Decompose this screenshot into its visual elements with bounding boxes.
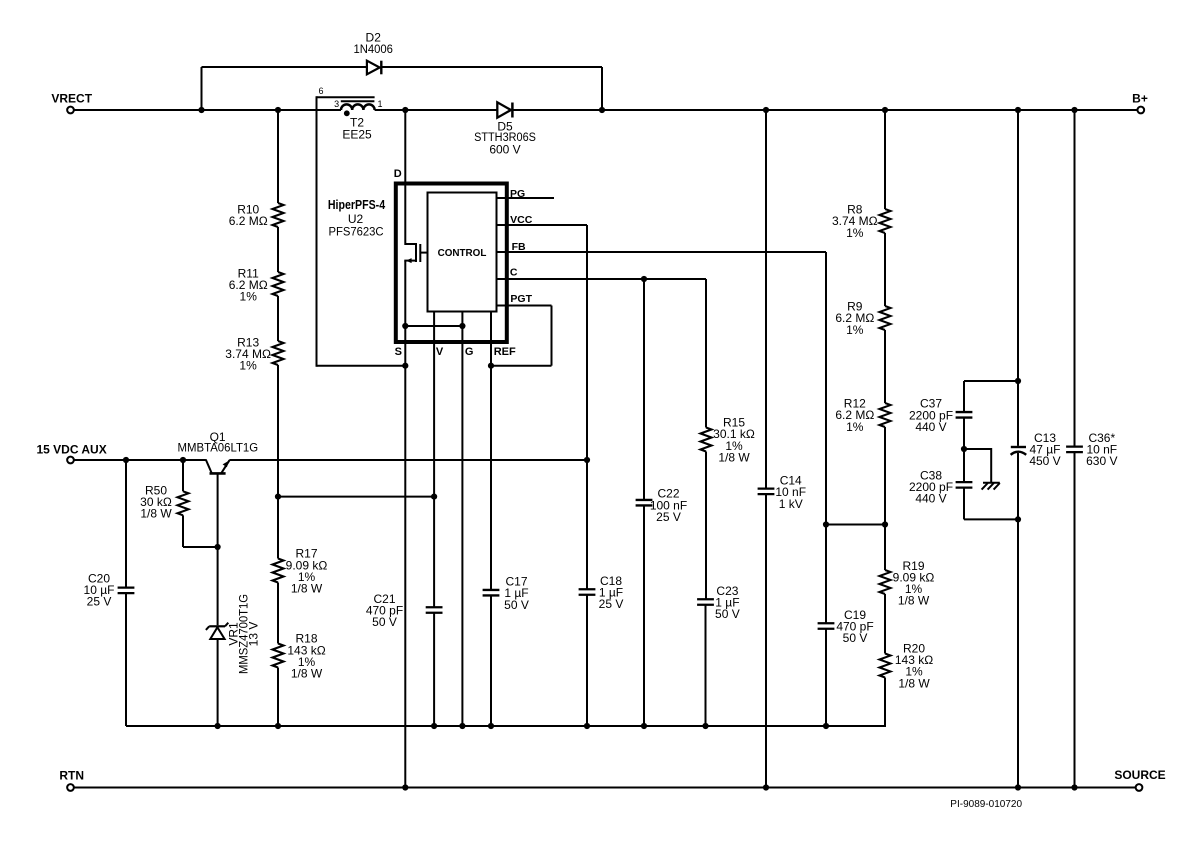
junction dot source link left xyxy=(402,323,408,329)
transistor Q1 label xyxy=(178,430,259,455)
resistor R19 xyxy=(880,559,935,608)
junction dot C36 top xyxy=(1071,107,1077,113)
wire pin6 to S link xyxy=(317,365,406,367)
junction dot C14 at RTN xyxy=(763,784,769,790)
wire MOSFET source down xyxy=(404,261,406,326)
wire C pin xyxy=(497,278,707,280)
junction dot C37 link xyxy=(1015,378,1021,384)
pin label G xyxy=(465,346,474,358)
svg-text:50 V: 50 V xyxy=(372,615,397,629)
capacitor C13 xyxy=(1011,431,1061,788)
pin label V xyxy=(436,346,444,358)
capacitor C22 xyxy=(636,279,688,726)
svg-text:C: C xyxy=(510,266,518,278)
wire S pin inside xyxy=(404,326,406,366)
wire R50 to base xyxy=(183,546,218,548)
wire D2 branch left vertical xyxy=(201,67,203,111)
svg-text:50 V: 50 V xyxy=(504,598,529,612)
wire D2 branch right vertical xyxy=(601,67,603,111)
svg-text:SOURCE: SOURCE xyxy=(1114,768,1165,782)
transistor Q2 MOSFET drain lead xyxy=(405,243,417,245)
wire S down to RTN xyxy=(404,366,406,788)
junction dot S at RTN xyxy=(402,784,408,790)
wire R11 to R13 xyxy=(277,296,279,341)
U2 control box xyxy=(428,193,497,312)
svg-text:VRECT: VRECT xyxy=(51,91,92,105)
svg-text:MMBTA06LT1G: MMBTA06LT1G xyxy=(178,441,259,454)
junction dot V line node xyxy=(431,494,437,500)
transformer T2 label xyxy=(342,116,372,142)
junction dot C13 at RTN xyxy=(1015,784,1021,790)
resistor R10 xyxy=(229,202,284,228)
svg-text:1%: 1% xyxy=(846,420,864,434)
pin label C xyxy=(510,266,518,278)
node VRECT terminal xyxy=(51,91,92,113)
svg-text:VCC: VCC xyxy=(510,214,533,226)
wire C38 bottom link xyxy=(964,518,1018,520)
junction dot C22 top xyxy=(641,276,647,282)
wire C37 top link xyxy=(964,380,1018,382)
pin label D xyxy=(394,168,402,180)
wire C14 upper xyxy=(765,110,767,489)
svg-text:PI-9089-010720: PI-9089-010720 xyxy=(950,799,1022,810)
pin label REF xyxy=(494,346,516,358)
svg-text:1/8 W: 1/8 W xyxy=(718,450,750,464)
wire PGT down xyxy=(551,306,553,366)
svg-text:1/8 W: 1/8 W xyxy=(898,676,930,690)
resistor R17 xyxy=(273,547,328,596)
junction dot C19 bottom xyxy=(823,723,829,729)
capacitor C20 xyxy=(84,460,135,726)
wire Q1 base down xyxy=(217,473,219,625)
wire R12 to node xyxy=(884,427,886,525)
transistor Q2 MOSFET gate lead xyxy=(420,252,428,254)
resistor R18 xyxy=(273,632,326,681)
diode D2 xyxy=(353,30,392,74)
svg-text:D: D xyxy=(394,168,402,180)
ground chassis symbol xyxy=(982,483,1000,490)
transistor Q1 collector lead xyxy=(206,459,212,473)
wire FB node to divider xyxy=(826,524,885,526)
svg-text:V: V xyxy=(436,346,444,358)
junction dot C20 top xyxy=(123,457,129,463)
wire VCC pin xyxy=(497,224,588,226)
resistor R12 xyxy=(835,397,890,434)
svg-text:1: 1 xyxy=(377,99,382,109)
junction dot R8 top xyxy=(882,107,888,113)
wire C14 lower xyxy=(765,494,767,787)
U2 name label xyxy=(328,198,386,238)
transistor Q1 emitter lead xyxy=(221,460,229,473)
svg-text:1/8 W: 1/8 W xyxy=(291,666,323,680)
node SOURCE terminal xyxy=(1114,768,1165,791)
capacitor C37 xyxy=(909,381,972,449)
wire R13 node to V line xyxy=(278,496,434,498)
svg-text:EE25: EE25 xyxy=(342,128,372,142)
junction dot C38 link xyxy=(1015,516,1021,522)
wire source to G link xyxy=(405,325,462,327)
junction dot C17 bottom xyxy=(488,723,494,729)
junction dot REF node xyxy=(488,363,494,369)
junction dot D2 left xyxy=(198,107,204,113)
junction dot D2 right xyxy=(599,107,605,113)
svg-text:PG: PG xyxy=(510,188,525,200)
wire rail to R8 xyxy=(884,110,886,209)
wire C line corner down xyxy=(705,279,707,428)
wire R13 down xyxy=(277,365,279,497)
wire REF down to C17 xyxy=(490,366,492,590)
junction dot source link right xyxy=(459,323,465,329)
zener VR1 xyxy=(206,623,228,726)
capacitor C19 xyxy=(818,608,874,726)
svg-text:630 V: 630 V xyxy=(1086,454,1117,468)
transformer T2 winding xyxy=(341,104,375,110)
svg-text:1%: 1% xyxy=(240,290,258,304)
svg-text:25 V: 25 V xyxy=(656,510,681,524)
wire R17 to R18 xyxy=(277,583,279,644)
transistor Q2 MOSFET channel xyxy=(415,243,417,262)
wire R18 to ground rail xyxy=(277,668,279,727)
wire G pin xyxy=(461,312,463,727)
svg-text:600 V: 600 V xyxy=(489,142,520,156)
junction dot G ground rail xyxy=(459,723,465,729)
wire D2 branch top left xyxy=(202,66,367,68)
wire node to R19 xyxy=(884,525,886,571)
junction dot C23 bottom xyxy=(702,723,708,729)
svg-text:PGT: PGT xyxy=(510,293,532,305)
junction dot S node xyxy=(402,363,408,369)
svg-text:1/8 W: 1/8 W xyxy=(140,506,172,520)
capacitor C38 xyxy=(909,449,972,519)
wire RTN SOURCE rail xyxy=(74,787,1136,789)
wire R15 to C23 xyxy=(705,452,707,600)
junction dot C18 bottom xyxy=(584,723,590,729)
capacitor C17 xyxy=(483,575,529,726)
pin label S xyxy=(395,346,402,358)
wire rail to R10 xyxy=(277,110,279,203)
svg-text:G: G xyxy=(465,346,474,358)
wire REF pin xyxy=(490,312,492,367)
pin label VCC xyxy=(510,214,533,226)
resistor R15 xyxy=(701,416,755,465)
capacitor C21 xyxy=(366,497,443,726)
wire FB line down xyxy=(825,252,827,525)
op-amp U2 outer box xyxy=(396,184,507,343)
node 15 VDC AUX terminal xyxy=(36,443,106,464)
junction dot R18 bottom xyxy=(275,723,281,729)
svg-text:1/8 W: 1/8 W xyxy=(291,581,323,595)
capacitor C36 xyxy=(1066,431,1117,788)
svg-text:CONTROL: CONTROL xyxy=(438,248,487,259)
svg-text:1N4006: 1N4006 xyxy=(353,43,392,56)
svg-text:1%: 1% xyxy=(846,323,864,337)
wire PG pin xyxy=(497,197,555,199)
junction dot C36 at RTN xyxy=(1071,784,1077,790)
wire AUX rail xyxy=(74,459,206,461)
svg-text:1/8 W: 1/8 W xyxy=(898,594,930,608)
resistor R11 xyxy=(229,266,284,303)
node PI-9089-010720 label xyxy=(950,799,1022,810)
zener VR1 label xyxy=(227,594,261,674)
svg-text:U2: U2 xyxy=(348,212,364,226)
svg-text:B+: B+ xyxy=(1132,91,1148,105)
transformer T2 core bar xyxy=(341,100,375,102)
svg-text:440 V: 440 V xyxy=(915,420,946,434)
resistor R20 xyxy=(880,641,934,690)
svg-text:13 V: 13 V xyxy=(246,622,260,647)
svg-text:REF: REF xyxy=(494,346,516,358)
node B+ terminal xyxy=(1132,91,1148,113)
wire signal ground rail xyxy=(126,725,885,727)
wire R19 to R20 xyxy=(884,594,886,654)
junction dot C13 top xyxy=(1015,107,1021,113)
junction dot C22 bottom xyxy=(641,723,647,729)
wire FB pin xyxy=(497,251,827,253)
svg-text:1%: 1% xyxy=(239,359,257,373)
transistor Q1 base bar xyxy=(210,472,226,475)
wire PGT to REF xyxy=(491,365,552,367)
wire emitter to VCC line xyxy=(229,459,587,461)
wire mid to chassis xyxy=(964,449,991,482)
svg-text:25 V: 25 V xyxy=(599,597,624,611)
pin 6 label xyxy=(318,86,323,96)
svg-text:450 V: 450 V xyxy=(1029,454,1060,468)
junction dot D pin top xyxy=(402,107,408,113)
wire PGT pin xyxy=(497,305,552,307)
capacitor C23 xyxy=(697,584,740,726)
resistor R8 xyxy=(832,203,891,240)
svg-text:PFS7623C: PFS7623C xyxy=(328,225,383,238)
junction dot C14 top xyxy=(763,107,769,113)
wire D pin xyxy=(404,110,406,245)
junction dot VR1 bottom xyxy=(215,723,221,729)
wire D5 to B+ xyxy=(512,109,1137,111)
svg-text:50 V: 50 V xyxy=(715,607,740,621)
wire D2 branch top right xyxy=(381,66,602,68)
capacitor C14 xyxy=(758,474,806,511)
wire VRECT rail to T2 xyxy=(74,109,341,111)
wire C36 upper xyxy=(1074,110,1076,446)
wire T2 to D5 xyxy=(375,109,498,111)
junction dot FB node xyxy=(823,521,829,527)
junction dot C21 bottom xyxy=(431,723,437,729)
wire R20 to ground rail corner xyxy=(826,678,885,727)
pin label PGT xyxy=(510,293,532,305)
junction dot VCC at AUX xyxy=(584,457,590,463)
svg-text:6.2 MΩ: 6.2 MΩ xyxy=(229,214,268,228)
wire node to R17 xyxy=(277,497,279,559)
svg-text:50 V: 50 V xyxy=(843,631,868,645)
pin label PG xyxy=(510,188,525,200)
svg-text:15 VDC AUX: 15 VDC AUX xyxy=(36,443,106,457)
svg-text:HiperPFS-4: HiperPFS-4 xyxy=(328,198,386,212)
wire R9 to R12 xyxy=(884,330,886,403)
transformer T2 polarity dot xyxy=(344,110,350,116)
svg-text:25 V: 25 V xyxy=(87,595,112,609)
wire R10 to R11 xyxy=(277,227,279,272)
junction dot C37 C38 mid xyxy=(961,446,967,452)
svg-text:1%: 1% xyxy=(846,226,864,240)
resistor R50 xyxy=(140,460,188,547)
junction dot divider mid xyxy=(882,521,888,527)
svg-text:3: 3 xyxy=(334,99,339,109)
resistor R13 xyxy=(225,335,283,372)
diode D5 xyxy=(474,102,536,156)
wire R8 to R9 xyxy=(884,233,886,306)
transistor Q2 MOSFET gate bar xyxy=(419,244,421,262)
svg-text:6: 6 xyxy=(318,86,323,96)
pin 1 label xyxy=(377,99,382,109)
svg-text:RTN: RTN xyxy=(59,768,84,782)
capacitor C18 xyxy=(579,574,624,726)
svg-text:FB: FB xyxy=(512,241,526,253)
junction dot base node xyxy=(215,544,221,550)
wire FB node down to C19 xyxy=(825,525,827,624)
svg-text:440 V: 440 V xyxy=(915,491,946,505)
pin 3 label xyxy=(334,99,339,109)
wire VCC line down xyxy=(586,225,588,589)
transistor Q2 MOSFET source lead xyxy=(404,258,416,263)
junction dot R13 bottom node xyxy=(275,494,281,500)
wire V pin xyxy=(433,312,435,498)
node RTN terminal xyxy=(59,768,84,791)
wire C13 upper xyxy=(1017,110,1019,446)
junction dot R50 top xyxy=(180,457,186,463)
junction dot R10 top xyxy=(275,107,281,113)
resistor R9 xyxy=(835,300,890,337)
pin label FB xyxy=(512,241,526,253)
svg-text:S: S xyxy=(395,346,402,358)
svg-text:1 kV: 1 kV xyxy=(779,497,803,511)
transformer T2 bias winding 6 xyxy=(317,96,375,367)
